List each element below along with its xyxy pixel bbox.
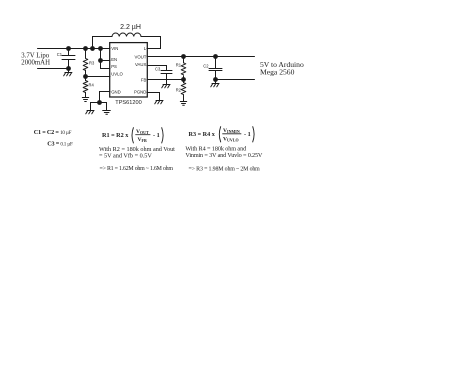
- svg-text:= 5V and Vfb = 0.5V: = 5V and Vfb = 0.5V: [99, 152, 152, 159]
- wire EN stub: [101, 60, 111, 62]
- node C2 top: [213, 54, 218, 59]
- ground chassis under PGND: [155, 101, 163, 104]
- svg-text:GND: GND: [111, 89, 121, 94]
- node R3 top: [83, 46, 88, 51]
- formula R3 equation: [189, 126, 255, 142]
- svg-text:VINMIN: VINMIN: [223, 128, 240, 134]
- node R1 top: [181, 54, 186, 59]
- ground chassis left of GND: [86, 111, 94, 114]
- svg-text:C3 = 0.1 µF: C3 = 0.1 µF: [47, 140, 73, 147]
- wire C2 bottom lead: [215, 71, 217, 80]
- svg-text:Mega 2560: Mega 2560: [260, 68, 295, 77]
- wire C2 ground stub: [215, 80, 217, 84]
- capacitor C3: [161, 71, 172, 74]
- wire R4 top lead: [85, 77, 87, 81]
- svg-text:R3 = R4 x: R3 = R4 x: [189, 131, 216, 138]
- node FB junction: [181, 77, 186, 82]
- svg-text:PS: PS: [111, 64, 117, 69]
- wire R2 bottom lead: [183, 95, 185, 101]
- svg-text:L: L: [144, 46, 147, 51]
- wire output return: [216, 79, 255, 81]
- svg-text:VAUX: VAUX: [135, 62, 147, 67]
- ground chassis under C2: [211, 84, 219, 87]
- wire FB: [147, 79, 184, 81]
- svg-text:C1: C1: [57, 52, 63, 57]
- svg-text:2.2 µH: 2.2 µH: [120, 24, 141, 31]
- wire C1 bottom lead: [68, 60, 70, 69]
- svg-text:PGND: PGND: [134, 90, 146, 95]
- svg-text:3.7V Lipo: 3.7V Lipo: [21, 52, 49, 59]
- svg-text:VOUT: VOUT: [136, 129, 149, 135]
- svg-text:VFB: VFB: [138, 137, 147, 143]
- wire VAUX: [147, 66, 167, 71]
- svg-text:R1: R1: [176, 63, 182, 68]
- node EN branch top: [98, 46, 103, 51]
- svg-text:C3: C3: [155, 67, 161, 72]
- ground chassis under C1: [64, 73, 72, 76]
- svg-text:VUVLO: VUVLO: [223, 137, 239, 143]
- svg-text:R3: R3: [89, 61, 95, 66]
- wire R1 bottom lead: [183, 76, 185, 80]
- ground chassis under C3: [162, 85, 170, 88]
- svg-text:=> R3 = 1.98M ohm ~ 2M ohm: => R3 = 1.98M ohm ~ 2M ohm: [189, 167, 261, 173]
- node EN junction: [98, 58, 103, 63]
- IC U1 TPS61200 body: [110, 43, 148, 97]
- node C2 bottom junction: [213, 77, 218, 82]
- wire C3 to ground: [166, 74, 168, 85]
- svg-text:- 1: - 1: [244, 131, 251, 138]
- wire R3 bottom lead: [85, 70, 87, 77]
- wire UVLO: [86, 76, 111, 78]
- capacitor C1: [62, 56, 75, 60]
- wire GND pin: [100, 92, 111, 103]
- ground bars right of GND: [103, 111, 111, 115]
- wire PGND: [147, 93, 160, 101]
- wire R3 top lead: [85, 49, 87, 59]
- node UVLO junction: [83, 74, 88, 79]
- wire R4 bottom lead: [85, 93, 87, 98]
- inductor L1 2.2uH: [112, 33, 141, 36]
- wire battery negative: [38, 68, 69, 70]
- resistor R2: [181, 83, 186, 95]
- svg-text:FB: FB: [141, 77, 147, 82]
- svg-text:VIN: VIN: [111, 46, 118, 51]
- resistor R3: [83, 58, 88, 70]
- svg-text:TPS61200: TPS61200: [115, 100, 141, 106]
- node C1 top junction: [66, 46, 71, 51]
- wire C2 top lead: [215, 57, 217, 69]
- wire C1 top lead: [68, 49, 70, 56]
- wire R1 top lead: [183, 57, 185, 63]
- wire R2 top lead: [183, 80, 185, 83]
- resistor R1: [181, 63, 186, 75]
- svg-text:VOUT: VOUT: [134, 54, 146, 59]
- wire inductor left riser: [93, 37, 113, 49]
- ground bars under R4: [82, 98, 88, 102]
- wire GND left branch: [91, 103, 100, 111]
- ground bars under R2: [180, 102, 186, 106]
- wire inductor right to L pin: [141, 37, 161, 49]
- svg-text:- 1: - 1: [153, 132, 160, 139]
- capacitor C2: [209, 69, 222, 71]
- node GND junction: [97, 100, 102, 105]
- wire GND right branch: [100, 103, 107, 111]
- svg-text:R4: R4: [89, 83, 95, 88]
- svg-text:=> R1 = 1.62M ohm ~ 1.6M ohm: => R1 = 1.62M ohm ~ 1.6M ohm: [100, 166, 174, 172]
- svg-text:2000mAH: 2000mAH: [21, 59, 50, 66]
- svg-text:C1 = C2 = 10 µF: C1 = C2 = 10 µF: [34, 129, 72, 136]
- svg-text:C2: C2: [203, 63, 209, 68]
- svg-text:R2: R2: [176, 87, 182, 92]
- node C1 bottom junction: [66, 66, 71, 71]
- wire PS stub: [101, 68, 111, 70]
- wire top VIN rail: [38, 48, 111, 50]
- svg-text:Vinmin = 3V and Vuvlo = 0.25V: Vinmin = 3V and Vuvlo = 0.25V: [185, 152, 263, 159]
- wire EN/PS riser: [100, 49, 102, 69]
- formula R1 equation: [102, 127, 163, 143]
- resistor R4: [83, 81, 88, 93]
- svg-text:UVLO: UVLO: [111, 72, 123, 77]
- wire VOUT rail: [147, 56, 255, 58]
- svg-text:EN: EN: [111, 57, 117, 62]
- wire to ground under C1: [68, 69, 70, 73]
- node inductor left leg: [90, 46, 95, 51]
- svg-text:R1 = R2 x: R1 = R2 x: [102, 132, 129, 139]
